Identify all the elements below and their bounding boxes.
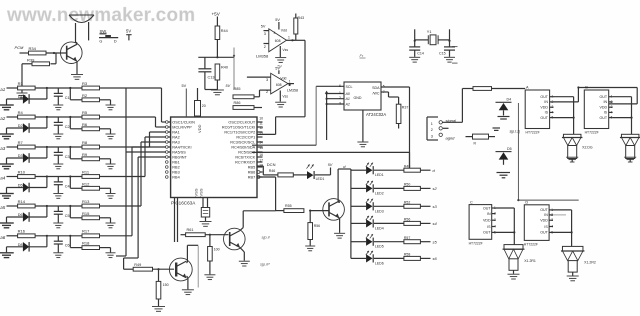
wire junction xyxy=(46,206,48,217)
ground xyxy=(106,133,116,135)
ground xyxy=(53,104,63,106)
resistor R47 xyxy=(473,87,492,91)
resistor R43 xyxy=(295,14,297,19)
svg-text:OUT: OUT xyxy=(540,116,548,120)
svg-text:OUT: OUT xyxy=(600,95,608,99)
wire xyxy=(414,29,416,47)
svg-text:IN: IN xyxy=(544,213,548,217)
svg-text:2: 2 xyxy=(339,96,341,100)
svg-text:3: 3 xyxy=(264,32,266,36)
led LED3 xyxy=(366,199,369,203)
wire xyxy=(100,205,142,207)
svg-text:R5: R5 xyxy=(82,110,88,115)
resistor R44 xyxy=(215,26,220,40)
svg-text:www.newmaker.com: www.newmaker.com xyxy=(6,5,195,26)
svg-text:A2: A2 xyxy=(345,103,350,107)
wire xyxy=(216,17,218,27)
wire IN net xyxy=(554,101,579,103)
ground xyxy=(53,252,63,254)
svg-text:/WC: /WC xyxy=(373,91,380,95)
svg-text:OUT: OUT xyxy=(540,231,548,235)
wire junction xyxy=(46,88,48,99)
wire xyxy=(35,235,82,237)
svg-text:C5: C5 xyxy=(65,214,70,218)
wire junction xyxy=(46,236,48,247)
svg-text:OSC1/CLKIN: OSC1/CLKIN xyxy=(172,121,195,125)
svg-text:R4: R4 xyxy=(18,110,24,115)
svg-text:VDD: VDD xyxy=(483,219,491,223)
svg-text:R18: R18 xyxy=(82,241,90,246)
wire xyxy=(351,169,366,171)
svg-text:RC7/RX/DT: RC7/RX/DT xyxy=(235,161,256,165)
svg-text:R55: R55 xyxy=(285,204,292,208)
wire xyxy=(35,205,82,207)
wire xyxy=(462,88,473,90)
svg-text:sjp.iP: sjp.iP xyxy=(260,262,270,267)
resistor R37 xyxy=(396,104,401,123)
svg-text:a5: a5 xyxy=(0,205,5,210)
ground xyxy=(305,245,315,247)
wire xyxy=(100,235,133,237)
wire xyxy=(22,63,32,65)
svg-text:HT7222F: HT7222F xyxy=(585,131,599,135)
wire xyxy=(443,127,449,129)
svg-text:4: 4 xyxy=(274,31,276,35)
svg-text:R9: R9 xyxy=(82,152,88,157)
wire SCL bus xyxy=(315,86,317,145)
ground xyxy=(409,56,420,58)
ground xyxy=(275,101,286,103)
svg-text:10: 10 xyxy=(259,117,263,121)
svg-text:R7: R7 xyxy=(18,140,24,145)
svg-text:16: 16 xyxy=(259,153,263,157)
svg-text:Y1: Y1 xyxy=(427,30,432,34)
svg-text:+5V: +5V xyxy=(212,12,221,17)
svg-text:C: C xyxy=(470,200,473,204)
wire xyxy=(69,117,71,129)
wire xyxy=(35,87,82,89)
wire led bus xyxy=(350,169,352,258)
svg-text:X1.2R1: X1.2R1 xyxy=(524,259,536,263)
svg-text:IS: IS xyxy=(604,111,608,115)
svg-text:R49: R49 xyxy=(134,263,141,267)
svg-text:X2.DG: X2.DG xyxy=(582,146,593,150)
wire xyxy=(29,127,47,129)
wire xyxy=(100,87,162,89)
svg-text:R56: R56 xyxy=(314,224,320,228)
capacitor C1 xyxy=(57,88,59,93)
pin stub xyxy=(257,121,263,123)
wire xyxy=(100,116,156,118)
svg-text:R85: R85 xyxy=(234,87,241,91)
wire xyxy=(75,41,77,43)
pin circle RB7 xyxy=(257,176,260,179)
svg-text:D4: D4 xyxy=(507,98,512,102)
wire xyxy=(35,116,82,118)
capacitor C13 xyxy=(204,57,206,69)
capacitor C14 xyxy=(409,46,420,48)
svg-text:IN: IN xyxy=(544,100,548,104)
svg-text:608: 608 xyxy=(275,39,281,43)
wire xyxy=(205,234,228,236)
svg-text:RC0/T1OSO/T1CKI: RC0/T1OSO/T1CKI xyxy=(222,126,255,130)
ground xyxy=(624,156,636,158)
svg-text:R1: R1 xyxy=(18,81,24,86)
svg-text:RA2: RA2 xyxy=(172,136,179,140)
wire xyxy=(420,241,430,243)
wire xyxy=(233,48,235,91)
buzzer X2.DG xyxy=(563,134,581,137)
wire xyxy=(613,96,632,98)
svg-text:R61: R61 xyxy=(187,228,194,232)
wire xyxy=(76,62,78,75)
svg-text:3: 3 xyxy=(339,102,341,106)
svg-text:2: 2 xyxy=(266,90,268,94)
ground xyxy=(493,127,501,129)
ground xyxy=(0,222,14,224)
wire xyxy=(420,169,430,171)
wire xyxy=(29,187,47,189)
ground xyxy=(497,172,511,174)
pin circle xyxy=(166,161,169,164)
capacitor C2 xyxy=(57,117,59,122)
ground xyxy=(53,222,63,224)
wire xyxy=(374,241,404,243)
svg-text:Vdd: Vdd xyxy=(280,76,286,80)
svg-text:C2: C2 xyxy=(65,125,70,129)
svg-text:2: 2 xyxy=(264,45,266,49)
svg-text:RC3/SCK/SCL: RC3/SCK/SCL xyxy=(230,141,255,145)
svg-text:RB0/INT: RB0/INT xyxy=(172,156,187,160)
wire xyxy=(415,39,429,41)
buzzer X1.2R2 xyxy=(562,246,583,251)
svg-text:RB5: RB5 xyxy=(248,166,255,170)
wire stub xyxy=(452,46,458,48)
wire SDA vertical xyxy=(409,87,411,168)
svg-text:RA4/T0CKI: RA4/T0CKI xyxy=(172,146,191,150)
svg-text:VDD: VDD xyxy=(540,219,548,223)
wire xyxy=(554,96,574,98)
svg-text:LED5: LED5 xyxy=(375,245,384,249)
pin stub xyxy=(257,146,263,148)
svg-text:C6: C6 xyxy=(65,244,70,248)
svg-text:20: 20 xyxy=(202,104,206,108)
wire xyxy=(257,165,263,167)
svg-text:G: G xyxy=(99,40,102,44)
svg-text:LM358: LM358 xyxy=(287,89,298,93)
wire xyxy=(69,88,71,100)
wire xyxy=(29,98,47,100)
ground xyxy=(152,306,165,308)
ground xyxy=(357,141,368,143)
wire xyxy=(186,262,189,263)
svg-text:Vss: Vss xyxy=(282,48,288,52)
resistor R60 xyxy=(209,235,211,247)
pin stub xyxy=(257,131,263,133)
svg-text:5V: 5V xyxy=(275,18,280,22)
ground xyxy=(182,289,194,291)
wire junction xyxy=(46,177,48,188)
svg-text:SCL: SCL xyxy=(346,85,353,89)
wire xyxy=(409,152,411,168)
wire xyxy=(420,222,430,224)
svg-text:C13: C13 xyxy=(208,76,215,80)
wire xyxy=(362,110,364,142)
wire xyxy=(205,89,218,91)
svg-text:R2: R2 xyxy=(82,93,88,98)
led LED2 xyxy=(366,181,369,185)
wire xyxy=(292,39,305,41)
wire xyxy=(7,235,18,237)
svg-text:MCLR/VPP: MCLR/VPP xyxy=(172,126,192,130)
svg-text:R16: R16 xyxy=(18,229,26,234)
resistor R51 xyxy=(158,269,160,281)
svg-text:RB4: RB4 xyxy=(172,176,179,180)
transistor Q2 xyxy=(169,258,192,281)
svg-text:Vss: Vss xyxy=(282,95,288,99)
wire xyxy=(198,56,234,58)
wire xyxy=(315,174,331,176)
eeprom U3 AT24C02A body xyxy=(344,82,381,110)
wire xyxy=(374,257,404,259)
pin circle xyxy=(166,166,169,169)
capacitor C4 xyxy=(57,177,59,182)
svg-text:HT7222F: HT7222F xyxy=(526,131,540,135)
svg-text:15: 15 xyxy=(259,146,263,150)
led LED4 xyxy=(366,216,369,220)
svg-text:IN: IN xyxy=(487,212,491,216)
svg-text:A0: A0 xyxy=(345,92,350,96)
svg-text:a1: a1 xyxy=(0,87,5,92)
pin 20 VDD stub xyxy=(197,88,199,101)
svg-text:VDD: VDD xyxy=(600,106,608,110)
pin stub xyxy=(257,176,263,178)
wire xyxy=(29,246,47,248)
svg-text:RB6: RB6 xyxy=(248,171,255,175)
wire xyxy=(496,207,515,209)
svg-text:R3: R3 xyxy=(82,81,88,86)
wire xyxy=(420,205,430,207)
svg-text:R12: R12 xyxy=(82,181,90,186)
pin circle xyxy=(166,131,169,134)
wire xyxy=(351,205,366,207)
wire xyxy=(100,247,111,249)
pin stub xyxy=(257,136,263,138)
ground xyxy=(508,273,520,275)
capacitor C6 xyxy=(57,236,59,241)
svg-text:5V: 5V xyxy=(182,84,187,88)
wire xyxy=(553,214,566,216)
pin circle xyxy=(166,151,169,154)
wire xyxy=(374,187,404,189)
ground xyxy=(0,193,14,195)
svg-text:a6: a6 xyxy=(0,235,5,240)
capacitor C3 xyxy=(57,147,59,152)
svg-text:LED2: LED2 xyxy=(375,191,384,195)
ground xyxy=(444,56,455,58)
ground xyxy=(567,275,579,277)
wire xyxy=(197,246,199,288)
svg-text:R14: R14 xyxy=(18,199,26,204)
wire xyxy=(69,177,71,189)
svg-text:R43: R43 xyxy=(298,16,305,20)
svg-text:RA3: RA3 xyxy=(172,141,179,145)
svg-text:IS: IS xyxy=(487,225,491,229)
wire xyxy=(310,210,329,212)
wire xyxy=(381,86,410,88)
svg-text:DCN: DCN xyxy=(267,162,276,167)
wire xyxy=(216,40,218,58)
ground xyxy=(17,92,28,94)
ground xyxy=(106,222,116,224)
ground xyxy=(204,274,215,276)
wire xyxy=(202,198,204,208)
svg-text:1: 1 xyxy=(339,91,341,95)
wire xyxy=(69,236,71,248)
wire xyxy=(420,257,430,259)
wire xyxy=(338,201,340,203)
svg-text:LED1: LED1 xyxy=(316,177,325,181)
transistor Q4 xyxy=(323,199,345,221)
svg-text:150: 150 xyxy=(163,283,169,287)
ground xyxy=(239,260,250,262)
ground xyxy=(71,74,83,76)
wire xyxy=(240,228,243,231)
wire xyxy=(35,146,82,148)
ground xyxy=(334,232,345,234)
wire xyxy=(7,87,18,89)
led LED7 xyxy=(293,174,307,176)
wire xyxy=(46,52,67,54)
svg-text:a2: a2 xyxy=(0,116,5,121)
svg-text:RC4/SDI/SDA: RC4/SDI/SDA xyxy=(231,146,255,150)
svg-text:RB1: RB1 xyxy=(172,161,179,165)
svg-text:AT24C02A: AT24C02A xyxy=(366,112,386,117)
ground xyxy=(53,163,63,165)
wire xyxy=(7,205,18,207)
svg-text:OUT: OUT xyxy=(600,116,608,120)
op-amp U2B LM358 xyxy=(271,73,288,94)
capacitor C7 xyxy=(201,208,209,218)
ground xyxy=(106,104,116,106)
pin circle xyxy=(166,121,169,124)
wire xyxy=(7,146,18,148)
buzzer X2.DG2 xyxy=(621,134,639,137)
svg-text:11: 11 xyxy=(259,122,263,126)
svg-text:VSS: VSS xyxy=(199,188,204,196)
transistor Q10 xyxy=(61,42,83,64)
svg-text:17: 17 xyxy=(259,159,263,163)
capacitor C5 xyxy=(57,206,59,211)
pin circle xyxy=(166,176,169,179)
svg-text:1: 1 xyxy=(288,36,290,40)
ground xyxy=(53,133,63,135)
wire xyxy=(100,217,111,219)
svg-text:RC6/TX/CK: RC6/TX/CK xyxy=(235,156,255,160)
svg-text:R10: R10 xyxy=(18,169,26,174)
svg-text:14: 14 xyxy=(259,141,263,145)
wire xyxy=(69,206,71,218)
svg-text:R17: R17 xyxy=(82,229,90,234)
svg-text:B: B xyxy=(585,86,588,90)
wire junction xyxy=(46,117,48,128)
pin stub xyxy=(257,166,263,168)
ground xyxy=(275,57,286,59)
svg-text:RC1/T1OSI/CCP2: RC1/T1OSI/CCP2 xyxy=(224,131,255,135)
pin stub xyxy=(257,126,263,128)
svg-text:5V: 5V xyxy=(328,163,333,167)
svg-text:5V: 5V xyxy=(126,29,131,34)
wire xyxy=(240,247,244,252)
ground xyxy=(106,193,116,195)
wire xyxy=(69,147,71,159)
svg-text:5V: 5V xyxy=(261,25,266,29)
wire xyxy=(492,88,526,90)
svg-text:C1: C1 xyxy=(65,96,70,100)
wire xyxy=(100,158,111,160)
pin circle xyxy=(166,141,169,144)
wire xyxy=(553,209,572,211)
resistor R45 xyxy=(466,136,473,138)
ground xyxy=(0,104,14,106)
svg-text:C15: C15 xyxy=(439,51,446,55)
svg-text:RB7: RB7 xyxy=(248,176,255,180)
svg-text:OUT: OUT xyxy=(483,231,491,235)
svg-text:RA1: RA1 xyxy=(172,131,179,135)
wire SDA xyxy=(252,151,410,153)
wire xyxy=(374,205,404,207)
wire xyxy=(100,99,111,101)
svg-text:agnd: agnd xyxy=(446,136,456,141)
wire xyxy=(125,88,127,256)
ground xyxy=(0,163,14,165)
svg-text:R6: R6 xyxy=(82,122,88,127)
svg-text:1: 1 xyxy=(289,79,291,83)
wire xyxy=(351,222,366,224)
mcu U1 PIC16C63A body xyxy=(171,117,257,198)
svg-text:IS: IS xyxy=(544,225,548,229)
svg-text:GND: GND xyxy=(354,96,362,100)
svg-text:R40: R40 xyxy=(221,66,228,70)
svg-text:IS: IS xyxy=(545,111,549,115)
svg-text:R37: R37 xyxy=(402,106,409,110)
svg-text:608: 608 xyxy=(276,83,282,87)
buzzer X1.2R1 xyxy=(504,245,523,250)
resistor R56 xyxy=(309,211,311,223)
speaker LS1 xyxy=(69,15,94,23)
wire xyxy=(100,187,111,189)
pin circle xyxy=(166,126,169,129)
wire xyxy=(374,169,404,171)
wire xyxy=(76,43,78,45)
svg-text:OUT: OUT xyxy=(540,208,548,212)
wire xyxy=(351,241,366,243)
svg-text:D5: D5 xyxy=(507,147,512,151)
svg-text:OUT: OUT xyxy=(540,95,548,99)
pin stub xyxy=(257,151,263,153)
pin circle xyxy=(166,146,169,149)
pin stub xyxy=(257,171,263,173)
svg-text:RB3: RB3 xyxy=(172,171,179,175)
svg-text:R13: R13 xyxy=(82,199,90,204)
wire xyxy=(100,128,111,130)
svg-text:OUT: OUT xyxy=(483,206,491,210)
ground xyxy=(566,156,578,158)
wire xyxy=(351,187,366,189)
svg-text:R15: R15 xyxy=(82,211,90,216)
svg-text:RC2/CCP1: RC2/CCP1 xyxy=(236,136,255,140)
led LED1 xyxy=(366,163,369,167)
